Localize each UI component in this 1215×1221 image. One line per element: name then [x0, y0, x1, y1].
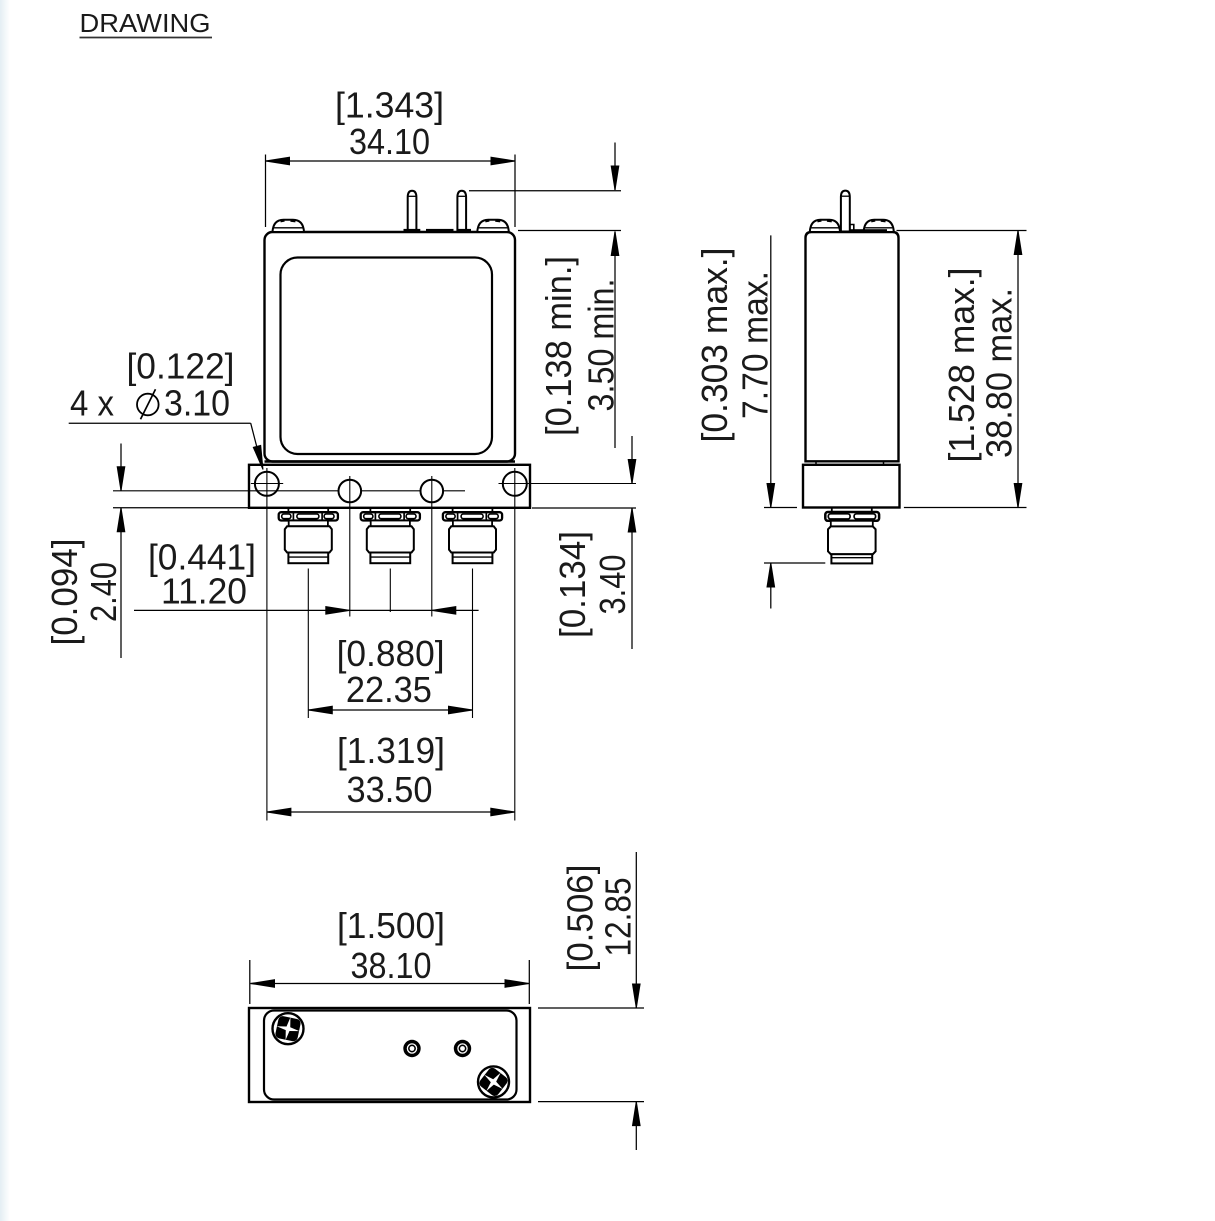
svg-text:[0.506]: [0.506]: [560, 865, 601, 972]
svg-text:38.80 max.: 38.80 max.: [979, 288, 1020, 458]
svg-text:3.50 min.: 3.50 min.: [581, 279, 622, 412]
svg-text:3.10: 3.10: [164, 383, 230, 424]
svg-text:DRAWING: DRAWING: [80, 10, 211, 38]
svg-text:[0.138 min.]: [0.138 min.]: [538, 256, 579, 436]
svg-text:[0.134]: [0.134]: [552, 531, 593, 638]
svg-text:33.50: 33.50: [347, 769, 433, 810]
svg-text:[0.094]: [0.094]: [44, 539, 85, 646]
svg-text:[1.528 max.]: [1.528 max.]: [941, 268, 982, 463]
svg-text:4 x: 4 x: [70, 383, 114, 424]
svg-text:38.10: 38.10: [351, 945, 432, 986]
svg-text:[1.319]: [1.319]: [337, 730, 445, 771]
svg-text:34.10: 34.10: [349, 121, 430, 162]
svg-text:3.40: 3.40: [592, 555, 633, 615]
svg-text:12.85: 12.85: [598, 878, 639, 957]
svg-text:[1.343]: [1.343]: [335, 85, 444, 126]
svg-text:11.20: 11.20: [161, 571, 247, 612]
svg-text:[1.500]: [1.500]: [337, 905, 445, 946]
svg-text:[0.122]: [0.122]: [127, 346, 235, 387]
svg-text:[0.303 max.]: [0.303 max.]: [694, 248, 735, 443]
svg-text:22.35: 22.35: [346, 669, 432, 710]
svg-text:2.40: 2.40: [83, 562, 124, 622]
svg-text:7.70 max.: 7.70 max.: [735, 271, 776, 419]
